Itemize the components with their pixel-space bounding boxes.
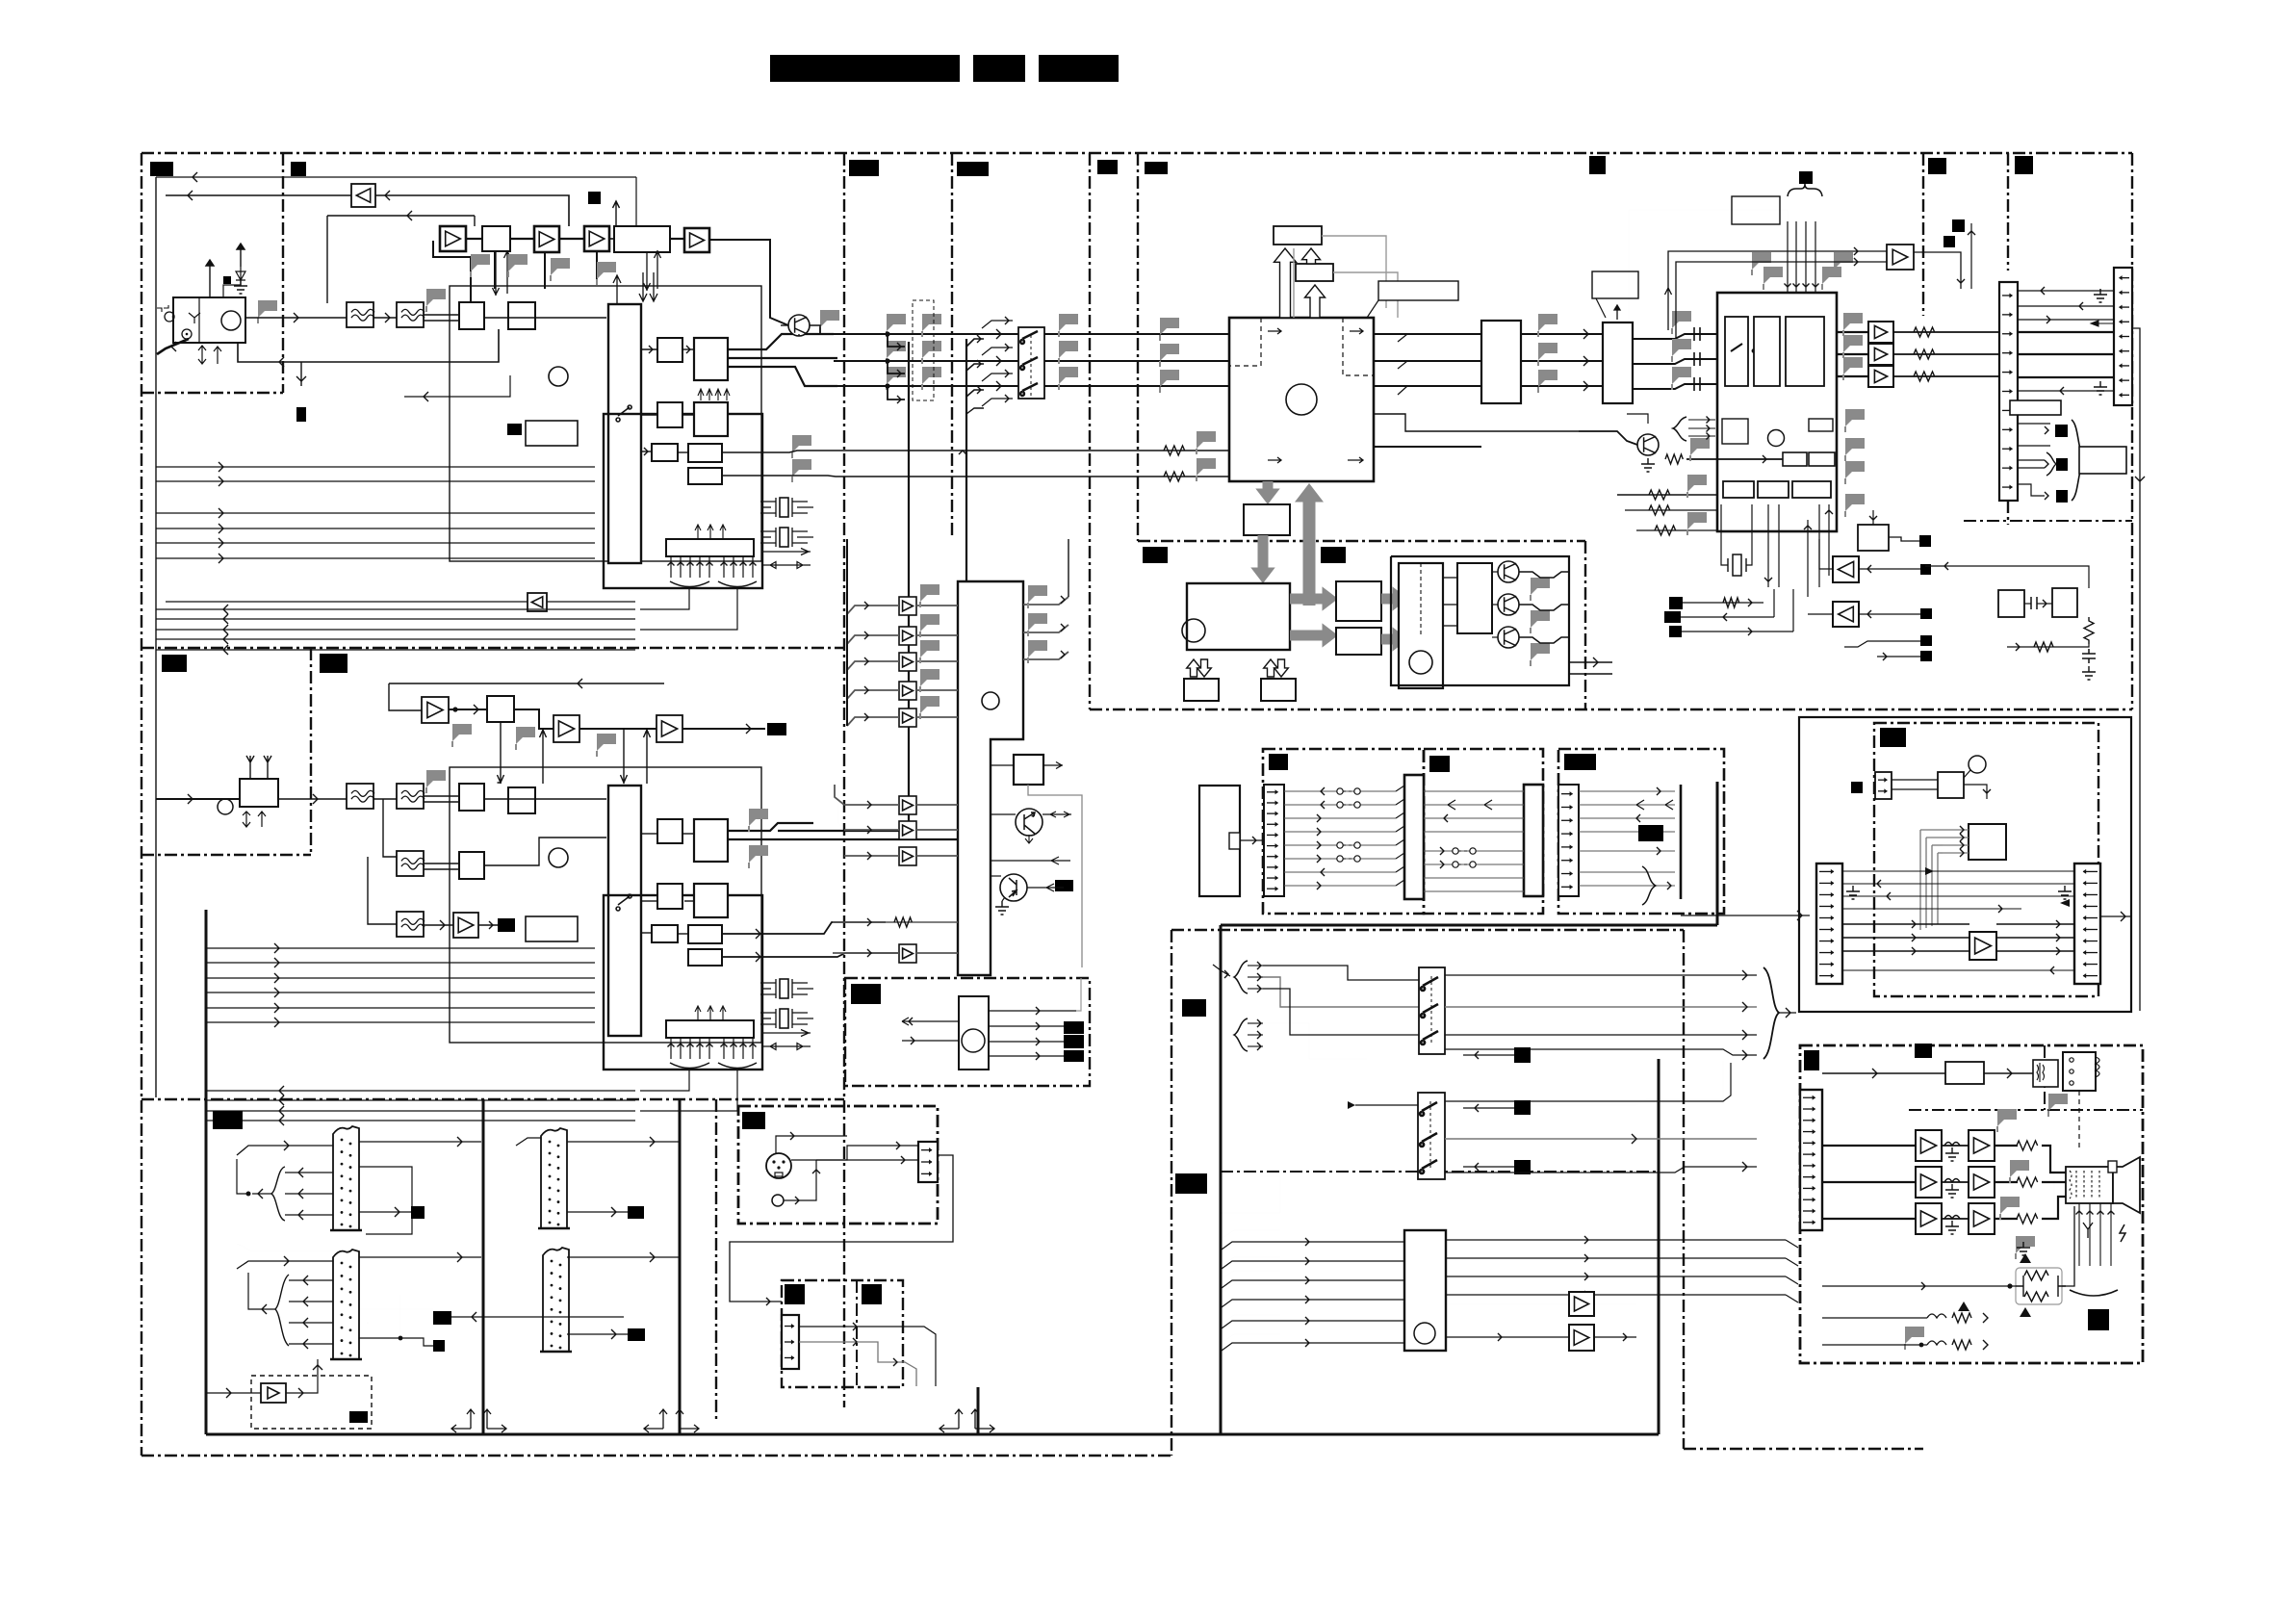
syscon arrow se <box>1348 457 1363 463</box>
arrow j1 <box>2041 287 2045 295</box>
tuner1 right blk5 <box>652 444 678 461</box>
control circle <box>962 1029 985 1052</box>
amp col left bus <box>846 539 848 726</box>
flag chain2-1 <box>452 724 472 741</box>
rec conn small <box>1875 772 1892 799</box>
wire fl203-mix3 <box>424 863 459 864</box>
pa res 2 <box>2017 1214 2038 1224</box>
black sq right3 <box>1920 608 1932 619</box>
key wire 0 <box>1284 790 1396 792</box>
bus tuner1 arr 1 <box>219 477 223 486</box>
wire s702 low in <box>1221 1176 1280 1213</box>
amp col3 <box>899 944 916 963</box>
brace sel1 arr 2 <box>1257 985 1261 992</box>
black arrow rec <box>2060 899 2070 907</box>
speaker connector <box>2066 1167 2113 1203</box>
fanin y388 <box>982 374 1013 381</box>
wire a801 <box>1446 1303 1569 1305</box>
control IC U601 <box>959 996 989 1070</box>
tuner1 right blk6 <box>688 444 722 462</box>
amp A401 <box>1868 322 1893 343</box>
arrow2 blk7 out <box>756 952 760 962</box>
filter FL201 <box>347 784 374 809</box>
tuner1 agc lines <box>404 375 510 397</box>
switch out y375 <box>1044 360 1229 362</box>
amp PA1a <box>1916 1167 1942 1198</box>
flag sw in2 <box>922 341 941 358</box>
amp A701 <box>261 1383 286 1403</box>
amp col A63 <box>899 682 916 700</box>
tuner1 front-end divider <box>198 297 200 343</box>
flag dac2 <box>1538 343 1557 360</box>
wire aux1 <box>799 1326 871 1328</box>
key contact a3 <box>1337 856 1343 862</box>
am jog arr2 <box>977 360 981 368</box>
key jog 2 <box>1396 812 1404 818</box>
record out arr 0 <box>1584 1236 1588 1244</box>
wire a402-r <box>1893 353 1999 355</box>
amp PA2a <box>1916 1203 1942 1234</box>
bus tuner2 out 3 <box>207 992 595 993</box>
disp contact b0 <box>1470 848 1476 854</box>
barrel2 stub 2b <box>797 1018 813 1019</box>
ceramic filter X101 <box>760 498 808 517</box>
wire mech out a <box>1569 661 1612 663</box>
am riser V2 <box>965 339 967 839</box>
rec exit right <box>2100 915 2132 917</box>
speaker sense arr 3 <box>2108 1211 2115 1215</box>
disp arr 1 <box>1440 861 1444 868</box>
tallic out flag 2 <box>1028 640 1047 657</box>
q602 gnd wire <box>1002 897 1005 901</box>
disp wire 4 <box>1424 850 1524 852</box>
tall IC circle <box>982 692 999 709</box>
wire2 eeprom tail2 <box>640 1070 737 1111</box>
key3 wire 3 <box>1579 831 1675 833</box>
conn J501 <box>1999 282 2018 501</box>
bus tuner2 in 3 <box>207 1120 635 1121</box>
fanin arr y333 <box>1005 317 1009 324</box>
arrow bsr5 <box>1883 653 1887 660</box>
bus tuner2 in 0 <box>207 1090 635 1092</box>
wire j4 <box>2018 331 2114 333</box>
frame outer right-top <box>2131 153 2133 709</box>
flag chain2-2 <box>516 727 535 744</box>
dsp small blk a <box>1783 452 1807 466</box>
label tr a <box>1928 158 1946 174</box>
arrow2 eeprom pin2 <box>687 1044 694 1047</box>
wire loop top v1 <box>326 216 328 303</box>
bus tuner2 arr 0 <box>274 943 279 953</box>
sdram callout pointer <box>1596 298 1606 318</box>
tuner1 right blk1 <box>657 338 682 362</box>
flag dsp top4 <box>1834 252 1853 270</box>
dac out2 <box>1521 360 1603 362</box>
wire2 eeprom pin3 <box>699 1038 701 1059</box>
sdram ant mark <box>1614 305 1620 320</box>
disp wire 5 <box>1424 864 1524 865</box>
rec block <box>1938 772 1964 798</box>
record out 2 <box>1446 1276 1786 1277</box>
wire chain a <box>467 238 482 240</box>
wire mech out b <box>1569 673 1612 675</box>
arrow r404 <box>1763 455 1766 463</box>
arrow mic1 <box>790 1132 794 1140</box>
pa wire out 0 <box>1995 1145 2018 1147</box>
flag dsp out3 <box>1843 357 1863 374</box>
warn tri 1 <box>2020 1253 2031 1263</box>
key jog 7 <box>1396 880 1404 886</box>
key contact b3 <box>1354 856 1360 862</box>
filter FL102 <box>397 302 425 327</box>
wire ctl in2 <box>902 1040 959 1042</box>
clock block B1 <box>1274 226 1322 245</box>
mixer block 1 <box>459 302 484 329</box>
amp A801 <box>1569 1292 1594 1316</box>
bus tuner2 out 4 <box>207 1007 595 1009</box>
arrow ctl out2 <box>1036 1022 1040 1030</box>
arrow aux1 <box>853 1323 857 1330</box>
antenna symbol 1 <box>206 260 214 297</box>
warr b1-b2 <box>1302 248 1321 264</box>
pa label 2 <box>1915 1044 1932 1058</box>
arrow sel in <box>1224 970 1228 978</box>
dsp in arr 2 <box>1707 433 1711 440</box>
osc blk2 <box>2052 588 2077 617</box>
amp col2 out 1 <box>916 829 958 831</box>
arrow bsq1 <box>1748 599 1752 606</box>
wire top return <box>156 176 636 178</box>
arrow chain2 d <box>746 724 751 734</box>
brace sel1 wire 1 <box>1248 976 1263 978</box>
wire ts2 bl <box>248 1273 275 1309</box>
frame outer bottom-left <box>142 1455 1171 1456</box>
wire s701 o1 <box>1445 974 1757 976</box>
wire2 eeprom pin5 <box>723 1038 725 1059</box>
arrow s701 o2 <box>1742 1002 1747 1012</box>
black sq ts3 <box>628 1206 644 1219</box>
corner arrows 1a <box>451 1409 475 1432</box>
wire bsq2 <box>1681 616 1774 618</box>
amp A201 <box>422 697 449 723</box>
key label 1 <box>1269 754 1288 770</box>
key3 arr 2 <box>1636 814 1640 822</box>
mech dashed <box>1420 563 1422 635</box>
q602 wire <box>1027 884 1064 891</box>
flag dsp out1 <box>1843 313 1863 330</box>
flag chain2-3 <box>597 734 616 751</box>
bus tuner1 out 5 <box>156 557 595 559</box>
servo circle <box>1182 619 1205 642</box>
arrow ts4 black <box>611 1329 616 1339</box>
wire q401 base <box>1627 414 1648 424</box>
arrow chain2 blk <box>474 705 478 714</box>
flag vol1 <box>1672 311 1691 328</box>
arrow agc <box>424 392 428 401</box>
amp A501 <box>1887 245 1914 270</box>
amp col2 A621 <box>899 821 916 839</box>
wire eeprom pin4 <box>708 556 710 578</box>
am jog arr1 <box>977 335 981 343</box>
resistor R405 <box>1649 490 1670 500</box>
black sq chain <box>588 192 601 204</box>
key contact dash2 <box>1343 844 1354 846</box>
key3 wire 5 <box>1579 871 1675 873</box>
arrow eeprom pin0 <box>668 562 675 566</box>
arrow s702 o2 <box>1632 1134 1636 1144</box>
arrow key3 out <box>1797 911 1802 920</box>
flag low2 <box>1687 512 1707 529</box>
amp col3 wire <box>833 952 899 954</box>
tuner1 cable elbow <box>157 339 189 354</box>
wire a404 in <box>1859 568 1920 570</box>
tuner2 osc circle <box>218 799 233 814</box>
brace sel1 arr 1 <box>1257 973 1261 981</box>
arrow ts2 l1 <box>303 1276 308 1285</box>
wire dsp up2 <box>1818 504 1820 587</box>
wire ts2 black2 <box>359 1338 433 1346</box>
amp col2 out 0 <box>916 804 958 806</box>
amp col flag 3 <box>920 669 940 686</box>
arrow tuner2 main <box>313 794 318 804</box>
disp wire 0 <box>1424 790 1524 792</box>
conn J502 <box>2114 268 2132 405</box>
label mid b <box>1321 547 1346 563</box>
black sq tuner1 small <box>223 276 231 284</box>
wire osc in <box>0 0 1 1</box>
wire low in1 <box>1617 494 1717 496</box>
tuner2 below arrows <box>243 812 266 827</box>
wire a105 left <box>166 194 351 196</box>
pa bot arr 1 <box>1983 1313 1988 1323</box>
wire loop top <box>327 215 475 217</box>
resistor R404 <box>1665 454 1683 464</box>
wire chain c <box>559 238 584 240</box>
frame tuner divider <box>142 647 844 649</box>
arrow2 eeprom pin6 <box>731 1044 737 1047</box>
arrow osc2 <box>2043 600 2046 607</box>
rec bundle h3 <box>1938 853 1969 857</box>
tallic out arr 1 <box>1061 624 1065 632</box>
transistor Q401 <box>1637 434 1659 455</box>
pa conn main <box>1800 1090 1822 1230</box>
brace eeprom 1 <box>670 581 709 587</box>
record out arr 3 <box>1584 1291 1588 1299</box>
keyboard label <box>213 1111 243 1129</box>
amp col arr 4 <box>864 713 868 721</box>
warr b2-ic <box>1305 285 1326 318</box>
wire mic out <box>730 1155 953 1302</box>
wire tuner2 in <box>156 798 240 800</box>
tuner1 right blk7 <box>688 468 722 484</box>
antenna2 symbol 2 <box>264 756 271 779</box>
eeprom top arrows <box>695 525 726 539</box>
wire a405 out <box>1808 613 1833 615</box>
key contact dash1 <box>1343 804 1354 806</box>
wire ts1 l1 <box>285 1172 333 1173</box>
flag dsp top2 <box>1822 267 1841 284</box>
frame antenna1 box right <box>282 153 284 393</box>
am jog into3 <box>966 390 984 397</box>
tallic out arr 2 <box>1061 651 1065 658</box>
arrow s702 black2 <box>1475 1163 1479 1171</box>
wire return y377 <box>238 329 499 362</box>
wire xtal1 <box>1721 504 1728 565</box>
arrow2 eeprom pin5 <box>721 1044 728 1047</box>
cap c402 <box>1694 352 1700 366</box>
dsp out2 <box>1837 353 1868 355</box>
arrow2 eeprom pin7 <box>740 1044 747 1047</box>
resistor R408 <box>1723 598 1739 607</box>
rec in stub 2 <box>1943 844 1969 846</box>
blk2-blk4 arrows <box>698 389 730 400</box>
arrow eeprom pin4 <box>707 562 713 566</box>
bus tuner2 arr 3 <box>274 988 279 997</box>
key contact b0 <box>1354 788 1360 794</box>
arrow rec exit <box>2121 912 2125 921</box>
warr mem2a <box>1264 659 1278 677</box>
frame poweramp ac vert <box>2044 1045 2046 1110</box>
wire chain e <box>670 238 684 240</box>
arrow a501 in1 <box>1854 247 1858 255</box>
rec wire3 <box>1964 785 1987 799</box>
amp col A60 <box>899 597 916 615</box>
flag dspo2 <box>1845 438 1865 455</box>
input switch S701 <box>1419 967 1445 1054</box>
tuner2 eeprom <box>666 1020 754 1038</box>
bus tuner2 arl 0 <box>279 1086 284 1096</box>
wire chain f <box>709 240 788 325</box>
disp wire 2 <box>1424 817 1524 819</box>
gnd osc <box>2082 666 2096 680</box>
wire ts2 black1b <box>359 1308 433 1310</box>
wire ts1 l3 <box>285 1214 333 1216</box>
junction pa bot <box>1919 1343 1924 1348</box>
tuner2 inner thick box <box>604 895 762 1070</box>
syscon circle <box>1286 384 1317 415</box>
rec in stub 1 <box>1943 837 1969 838</box>
record out jog 0 <box>1786 1240 1798 1248</box>
rec wire2 <box>1892 788 1938 790</box>
key3 wire 1 <box>1579 804 1675 806</box>
wire f2b <box>2018 467 2045 469</box>
title bar segment 1 <box>770 55 960 82</box>
speaker black <box>2088 1309 2109 1330</box>
wire2 blk5-blk6 <box>678 933 688 935</box>
flag dspo1 <box>1845 409 1865 426</box>
filter FL204 <box>397 912 425 937</box>
resistor R406 <box>1649 505 1670 515</box>
rec bundle 1 <box>1920 837 1969 838</box>
ic2 out stub2 <box>762 1044 811 1050</box>
arrow aux1 <box>959 451 966 454</box>
mech circle <box>1409 651 1432 674</box>
arrow s701 o1 <box>1742 970 1747 980</box>
wire fl101-fl102 <box>373 317 397 319</box>
wire s701 o3 <box>1445 1034 1757 1036</box>
wire blk3-blk4 <box>682 414 694 416</box>
pa flag r0b <box>2010 1160 2029 1177</box>
gnd j bot <box>2094 381 2107 395</box>
wire q401 in <box>1579 431 1637 445</box>
wire sel black1 <box>1463 1054 1514 1056</box>
tuner2 shield outline <box>450 767 761 1043</box>
q101 wire l <box>781 324 788 326</box>
pa coil 2 <box>1944 1216 1960 1220</box>
arrow aux out2 <box>893 1358 897 1366</box>
wire fb top2 <box>1676 262 1887 339</box>
tap elbow 1 <box>888 334 905 347</box>
tall IC U602 <box>958 581 1023 975</box>
tap arrow 3 <box>897 396 901 403</box>
dsp sel switch <box>1731 344 1756 352</box>
mixer2 block 3 <box>459 852 484 879</box>
pa wire row2 bend <box>2042 1197 2066 1219</box>
label top d <box>957 162 989 176</box>
key wire 7 <box>1284 885 1396 887</box>
wire ctl out1b <box>1076 978 1081 1011</box>
amp col2 out 2 <box>916 855 958 857</box>
pa flag ac <box>2048 1094 2068 1111</box>
speaker pin top <box>2108 1161 2117 1173</box>
jog set1 <box>1398 334 1407 342</box>
wire eeprom pin0 <box>670 556 672 578</box>
black sq ts2b <box>433 1311 451 1325</box>
wire s702 o2 <box>1445 1138 1757 1140</box>
am jog into2 <box>966 364 984 371</box>
brace pa in <box>1763 967 1779 1059</box>
wire2 eeprom pin6 <box>733 1038 734 1059</box>
wire ts1 bl <box>252 1193 271 1195</box>
motor M2 <box>1498 594 1519 615</box>
record out jog 1 <box>1786 1258 1798 1266</box>
pa label 1 <box>1804 1050 1819 1070</box>
arrow a204 out <box>489 921 493 929</box>
tuner1 local osc circle <box>221 311 241 330</box>
warn tri 3 <box>1958 1302 1969 1311</box>
tuner1 IF IC U102 <box>608 304 641 563</box>
arrow j3 <box>2046 316 2050 323</box>
wire s702 top <box>1363 1061 1723 1105</box>
tuner1 output flag <box>258 300 277 318</box>
wire2 eeprom pin2 <box>689 1038 691 1059</box>
wire f3a <box>2018 484 2045 496</box>
wire s702 black2 <box>1463 1166 1514 1168</box>
antenna diode wire <box>223 280 241 297</box>
pa fan wire 1 <box>1223 1244 1280 1251</box>
arrow ic-blk5 <box>644 448 648 455</box>
rec bundle h0 <box>1920 830 1969 857</box>
rec wire l3 <box>1842 895 2074 897</box>
tuner1 pll circle <box>549 367 568 386</box>
arrow mic3 <box>901 1156 905 1164</box>
wire ts1 l2 <box>285 1193 333 1195</box>
wire exit1 <box>2018 423 2050 425</box>
wire m2 out <box>1519 605 1569 610</box>
tuner2 pll circle <box>549 848 568 867</box>
switch pole 3 <box>1020 383 1038 396</box>
bus tuner1 in 0 <box>156 608 635 610</box>
arrow2 eeprom pin8 <box>750 1044 757 1047</box>
corner arrows 2b <box>676 1409 699 1432</box>
wire xtal2 <box>1746 504 1752 565</box>
mem block 1 <box>1184 679 1219 701</box>
frame x2086 segment2 <box>2007 501 2009 525</box>
dsp inner blk <box>1722 419 1748 444</box>
record in arr 2 <box>1305 1276 1309 1284</box>
arrow rec mid3 <box>1912 947 1916 955</box>
tallic br wire <box>991 764 1014 766</box>
